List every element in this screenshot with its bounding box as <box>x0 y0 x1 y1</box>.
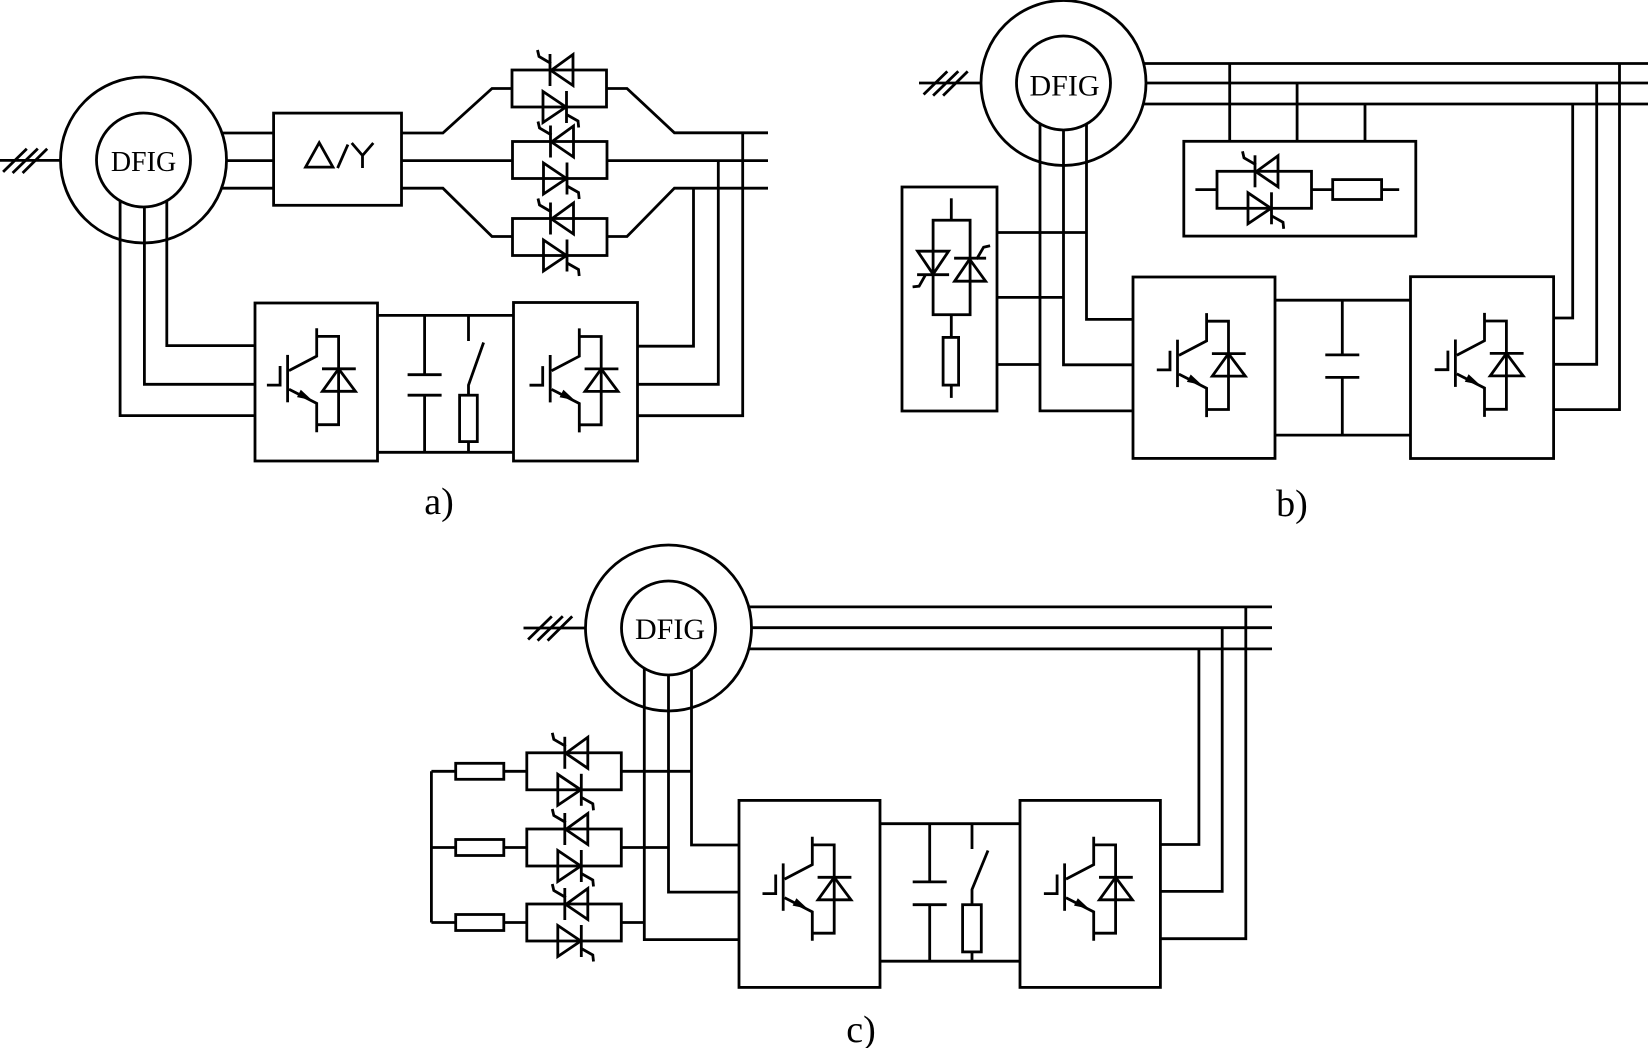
DC link capacitor C2 <box>1325 300 1359 435</box>
generator DFIG G3 <box>586 545 752 711</box>
transformer T1 delta/wye <box>274 113 402 205</box>
svg-text:a): a) <box>424 481 454 523</box>
SCR bypass pair VT4 <box>1217 151 1312 229</box>
wire SCR c1 to rotor phase C <box>621 770 692 773</box>
wire bus a2 tap to GSC <box>638 161 719 385</box>
IGBT module in GSC (a) <box>530 328 619 432</box>
SCR bypass pair VT7 <box>527 809 622 887</box>
svg-text:b): b) <box>1276 483 1308 525</box>
wire stator a1 <box>222 132 274 135</box>
IGBT module in GSC (c) <box>1044 837 1133 941</box>
rotor-side converter box (a) <box>255 303 378 461</box>
IGBT module in RSC (a) <box>267 328 356 432</box>
svg-text:DFIG: DFIG <box>635 613 705 646</box>
generator DFIG G1 <box>61 77 227 243</box>
DC link rail negative (b) <box>1275 434 1411 437</box>
SCR bypass pair VT1 <box>512 50 607 128</box>
wire bus a1 tap to GSC <box>638 133 743 416</box>
SCR crowbar pair VT5 <box>913 220 991 315</box>
wire R6 to SCR pair c3 <box>504 921 527 924</box>
wire GSC c to bus c2 <box>1160 628 1222 892</box>
wire GSC b to bus b3 <box>1554 104 1573 318</box>
crowbar wire phase 3 <box>997 363 1040 366</box>
wire GSC b to bus b2 <box>1554 83 1597 364</box>
rotor-side converter box (b) <box>1133 277 1275 458</box>
wire rotor a phase to RSC top <box>167 201 255 346</box>
wire bus b3 to protection box <box>1364 104 1367 141</box>
wire star bus to R6 <box>431 921 455 924</box>
wire R4 to SCR pair c1 <box>504 770 527 773</box>
wire VT2 to grid bus a2 <box>607 159 768 162</box>
crowbar resistor R3 <box>943 337 959 385</box>
wire T1 to SCR VT1 <box>402 89 513 134</box>
wire rotor a phase to RSC mid <box>144 207 255 384</box>
DC link rail positive (b) <box>1275 299 1411 302</box>
svg-text:c): c) <box>846 1009 876 1048</box>
grid-side converter box (b) <box>1411 277 1554 459</box>
wire VT1 to grid bus a1 <box>607 89 769 133</box>
crowbar wire phase 2 <box>997 296 1064 299</box>
resistor R5 <box>456 840 504 856</box>
wire VT3 to grid bus a3 <box>607 188 768 236</box>
wire star bus to R4 <box>431 770 455 773</box>
crowbar bottom tail <box>950 385 953 398</box>
wire rotor c phase C <box>692 669 740 846</box>
wire SCR pair to resistor (b) <box>1312 188 1333 191</box>
SDBR star bus bar (c) <box>430 771 433 922</box>
DC link rail positive (a) <box>378 314 514 317</box>
DC link rail positive (c) <box>880 822 1020 825</box>
wire T1 to SCR VT2 <box>402 159 513 162</box>
wire rotor b to RSC mid <box>1064 130 1134 365</box>
grid bus b3 <box>1144 103 1648 106</box>
series resistor R2 <box>1333 180 1382 200</box>
grid bus c3 <box>749 648 1272 651</box>
wire R5 to SCR pair c2 <box>504 846 527 849</box>
shaft with hatch marks (turbine input b) <box>919 71 981 95</box>
rotor-side converter box (c) <box>739 800 880 987</box>
wire T1 to SCR VT3 <box>402 188 513 236</box>
shaft with hatch marks (turbine input c) <box>524 616 586 640</box>
crowbar top lead <box>950 198 953 220</box>
crowbar wire phase 1 <box>997 231 1087 234</box>
wire rotor c phase B <box>669 675 740 892</box>
SCR bypass pair VT6 <box>527 733 622 811</box>
grid bus b2 <box>1146 82 1648 85</box>
SCR bypass pair VT3 <box>513 199 608 277</box>
grid bus c2 <box>752 626 1273 629</box>
wire GSC c to bus c3 <box>1160 649 1199 845</box>
wire rotor b to RSC bottom <box>1040 124 1133 411</box>
wire bus b1 to protection box <box>1228 64 1231 142</box>
DC link capacitor C1 <box>408 315 442 452</box>
IGBT module in GSC (b) <box>1435 313 1524 417</box>
wire resistor lead right (b) <box>1382 188 1400 191</box>
SCR bypass pair VT2 <box>513 122 608 200</box>
IGBT module in RSC (b) <box>1157 313 1246 417</box>
shaft with hatch marks (turbine input a) <box>0 149 61 173</box>
chopper switch S2 and resistor R7 <box>963 824 988 962</box>
wire rotor b to RSC top <box>1087 124 1134 319</box>
chopper switch S1 and resistor R1 <box>460 315 484 452</box>
wire rotor c phase A <box>644 668 739 939</box>
svg-text:DFIG: DFIG <box>1029 70 1099 103</box>
grid-side converter box (a) <box>514 303 638 462</box>
DC link rail negative (a) <box>378 451 514 454</box>
wire lead to SCR pair (b) <box>1195 188 1217 191</box>
wire stator a3 <box>222 187 274 190</box>
SCR bypass pair VT8 <box>527 884 622 962</box>
wire stator a2 <box>227 159 274 162</box>
IGBT module in RSC (c) <box>763 837 852 941</box>
wire SCR c3 to rotor phase A <box>621 921 645 924</box>
DC link rail negative (c) <box>880 960 1020 963</box>
DC link capacitor C3 <box>913 824 947 962</box>
grid-side converter box (c) <box>1020 800 1160 987</box>
wire star bus to R5 <box>431 846 455 849</box>
crowbar mid lead <box>950 315 953 338</box>
series protection box (b) <box>1184 141 1416 236</box>
wire bus b2 to protection box <box>1296 83 1299 141</box>
wire GSC c to bus c1 <box>1160 607 1245 939</box>
svg-text:DFIG: DFIG <box>111 147 176 178</box>
wire GSC b to bus b1 <box>1554 64 1620 410</box>
wire SCR c2 to rotor phase B <box>621 846 669 849</box>
crowbar box (b) <box>902 187 997 411</box>
wire bus a3 tap to GSC <box>638 188 694 346</box>
wire rotor a phase to RSC bottom <box>120 201 255 416</box>
resistor R6 <box>456 915 504 931</box>
resistor R4 <box>456 763 504 779</box>
grid bus b1 <box>1144 62 1648 65</box>
generator DFIG G2 <box>981 1 1146 166</box>
grid bus c1 <box>749 606 1272 609</box>
